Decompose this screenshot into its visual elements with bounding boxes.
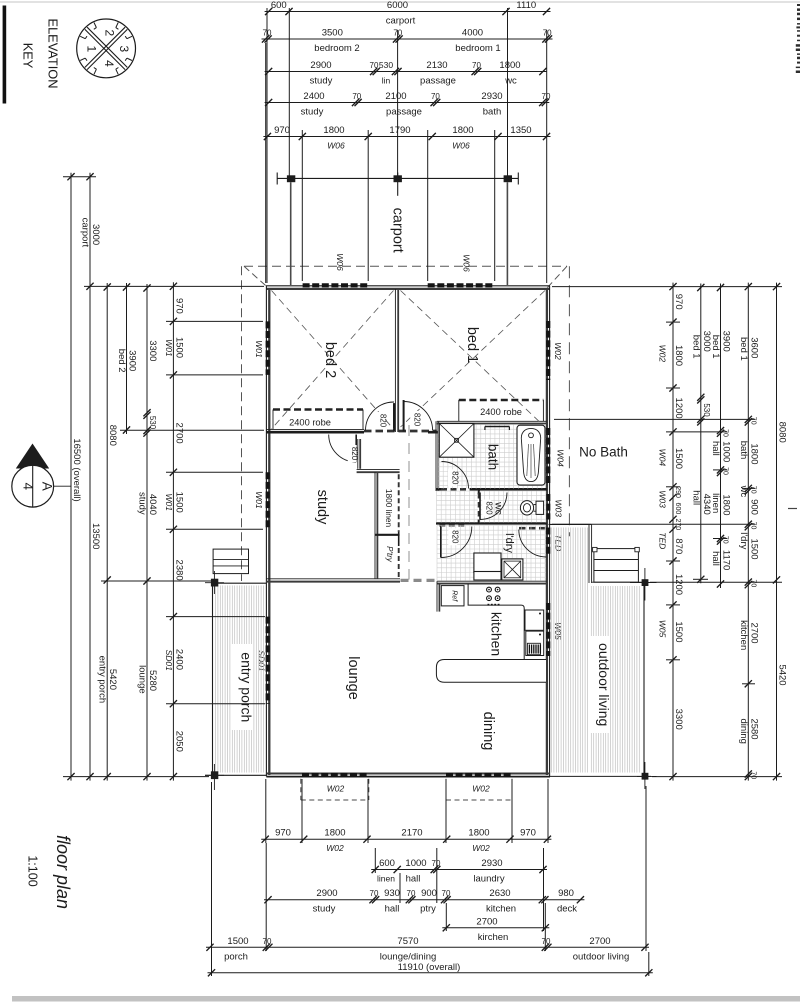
svg-text:2900: 2900 [316,888,337,899]
svg-text:bed 1: bed 1 [738,337,749,361]
svg-text:W06: W06 [462,254,472,272]
svg-text:3300: 3300 [673,709,684,730]
svg-text:W02: W02 [658,345,668,363]
wall bed centre [395,289,398,432]
svg-text:No Bath: No Bath [579,445,628,460]
svg-text:820: 820 [350,447,359,461]
svg-text:3900: 3900 [721,331,732,352]
wall kitchen north [437,581,547,583]
carport label [390,208,406,253]
dim col right J: 3600 bed 1/1800 bath/900 wc/1500 ldry/2700 kitchen/2580 dining [738,283,760,781]
svg-text:70: 70 [370,889,379,898]
svg-text:hall: hall [690,490,701,505]
svg-text:wc: wc [738,485,749,498]
svg-text:2930: 2930 [481,91,502,102]
svg-text:W06: W06 [452,141,470,151]
svg-text:970: 970 [673,294,684,310]
svg-text:laundry: laundry [473,874,504,885]
window W02 right wall [546,321,550,380]
window W04 right wall [546,428,550,483]
svg-text:SD01: SD01 [164,650,174,672]
svg-text:3300: 3300 [147,340,158,361]
svg-text:bath: bath [486,444,501,470]
svg-text:5280: 5280 [147,670,158,691]
svg-text:70: 70 [722,429,729,437]
dim col left B: 3000 carport / 13500 [80,173,102,781]
svg-text:70: 70 [722,467,729,475]
svg-text:1800: 1800 [721,494,732,515]
svg-text:lounge/dining: lounge/dining [380,951,437,962]
svg-text:70: 70 [749,486,756,494]
porch outline [205,583,266,775]
svg-text:W02: W02 [553,342,563,360]
svg-text:1500: 1500 [673,448,684,469]
svg-text:W01: W01 [254,491,264,509]
svg-text:70: 70 [543,29,552,38]
dim row top3: 2900/70/530/70/2130/70/1800 [265,60,547,87]
window W06 right top wall [428,283,495,287]
bed 1 cross diagonals [401,291,546,428]
svg-text:2700: 2700 [476,916,497,927]
label dining [480,712,496,751]
svg-text:290: 290 [674,486,681,498]
svg-text:6000: 6000 [387,0,408,11]
wall linen/ptry divider [375,534,400,536]
deck post top [630,568,657,601]
wall study/lounge [266,579,400,582]
label ldry [503,533,515,553]
wall bath west [436,421,438,491]
wall wc/ldry divider [436,523,547,528]
svg-text:530: 530 [702,403,711,417]
bath door arc [442,462,469,489]
label W01 upper [254,340,264,358]
svg-text:970: 970 [520,828,536,839]
svg-text:W06: W06 [327,141,345,151]
window W03 right wall [546,494,550,520]
W02 tag box left [301,779,369,800]
svg-text:floor plan: floor plan [53,835,73,909]
svg-text:1800: 1800 [323,125,344,136]
svg-text:1200: 1200 [673,574,684,595]
svg-text:70: 70 [352,92,361,101]
door 820 labels [348,411,494,545]
svg-text:70: 70 [407,889,416,898]
svg-text:study: study [137,492,148,515]
svg-text:W01: W01 [164,339,174,357]
svg-text:2900: 2900 [310,60,331,71]
svg-text:bed 1: bed 1 [710,335,721,359]
bathtub [517,425,545,485]
deck hatch [552,528,640,773]
svg-text:1800: 1800 [499,60,520,71]
dim col left D: 3900 bed 2 [116,283,138,434]
dim row bottom2: 600/1000/70/2930 [371,858,547,885]
svg-text:entry porch: entry porch [239,652,255,722]
wc floor tiles [480,491,546,523]
svg-text:2700: 2700 [173,423,184,444]
svg-text:820: 820 [413,413,422,427]
wall kitchen west return [437,581,439,611]
svg-text:dining: dining [480,712,496,751]
kitchen island bench [436,660,546,683]
svg-text:530: 530 [148,416,157,430]
wc door arc [480,493,507,520]
svg-text:bed 1: bed 1 [690,335,701,359]
svg-text:1:100: 1:100 [26,855,40,886]
dim row top4: 2400/70/2100/70/2930/70 [265,91,551,118]
dim row bottom6: 11910 overall [208,962,653,976]
entry porch label [231,644,255,730]
svg-text:carport: carport [390,208,406,253]
label ptry [385,546,394,563]
svg-text:bath: bath [483,107,502,118]
svg-text:1800: 1800 [748,443,759,464]
svg-text:970: 970 [274,125,290,136]
svg-text:70: 70 [472,61,481,70]
svg-text:outdoor living: outdoor living [596,643,612,726]
svg-text:2170: 2170 [401,828,422,839]
svg-text:kirchen: kirchen [478,932,509,943]
svg-text:passage: passage [420,76,456,87]
door TED right wall [546,528,550,556]
svg-text:16500 (overall): 16500 (overall) [71,438,82,501]
svg-text:4040: 4040 [147,494,158,515]
svg-text:Ref: Ref [451,590,458,602]
deck outline [549,524,651,776]
wall bath/wc divider [436,488,547,491]
svg-text:bedroom 2: bedroom 2 [314,43,359,54]
label W01 lower [254,491,264,509]
svg-text:1500: 1500 [173,492,184,513]
svg-text:study: study [301,107,324,118]
dim row bottom3: 2900/70/930/70/900/70/2630/70/980 [264,888,584,915]
svg-text:carport: carport [386,16,416,27]
label W02 right wall [553,342,563,360]
svg-text:kitchen: kitchen [486,904,516,915]
svg-text:study: study [313,904,336,915]
svg-text:1500: 1500 [748,538,759,559]
dim col left C: 8080 / 5420 entry porch [97,283,119,781]
bed 1 door arc [404,402,433,431]
label wc [493,501,505,515]
dim row top5: 970/1800/1790/1800/1350 [263,125,550,151]
title floor plan [53,835,73,909]
carport beam and posts [277,173,518,286]
sheet bottom edge band [12,996,800,1002]
bed door leaves [394,400,404,432]
svg-text:hall: hall [710,551,721,566]
svg-text:1110: 1110 [516,0,536,11]
svg-text:1500: 1500 [673,621,684,642]
svg-text:1790: 1790 [389,125,410,136]
laundry trough [474,553,501,580]
svg-text:1200: 1200 [673,398,684,419]
svg-text:2580: 2580 [748,718,759,739]
svg-text:70: 70 [749,417,756,425]
washing machine [502,559,523,580]
svg-text:13500: 13500 [90,523,101,549]
svg-text:4: 4 [102,60,116,67]
svg-text:A: A [40,482,55,491]
svg-text:70: 70 [749,580,756,588]
porch post bottom [205,764,224,790]
bed 2 door arc [366,402,395,431]
label TED right wall [553,534,563,551]
svg-text:1350: 1350 [510,125,531,136]
label bath [486,444,501,470]
fridge Ref [441,586,464,606]
window W02 bottom wall right [446,773,512,777]
porch post top [205,571,224,594]
svg-text:W04: W04 [556,449,566,467]
svg-text:porch: porch [224,951,248,962]
svg-text:hall: hall [710,441,721,456]
svg-text:1000: 1000 [721,441,732,462]
svg-text:W03: W03 [658,490,668,508]
window W01 lower left wall [266,472,270,529]
svg-text:W01: W01 [164,493,174,511]
svg-text:outdoor living: outdoor living [573,951,630,962]
sheet top edge line [0,1,800,3]
svg-text:70: 70 [442,889,451,898]
svg-text:600: 600 [271,0,287,11]
label bed 1 [464,327,480,363]
svg-text:wc: wc [504,76,517,87]
towel rail [485,427,510,431]
bath floor tiles [439,425,547,489]
svg-text:1800: 1800 [673,345,684,366]
svg-text:2400: 2400 [303,91,324,102]
ELEVATION KEY title [21,19,61,89]
svg-text:3500: 3500 [322,28,343,39]
label W04 right wall [556,449,566,467]
dim col left F: 970/1500 W01/2700/1500 W01/2380/2400 SD01/2050 [164,282,185,780]
robe bed 2 [273,410,363,430]
svg-text:W02: W02 [326,843,344,853]
svg-text:1800: 1800 [452,125,473,136]
svg-text:bed 2: bed 2 [322,342,338,378]
svg-text:11910 (overall): 11910 (overall) [398,962,461,973]
svg-text:820: 820 [450,471,459,485]
deck steps [593,547,640,582]
dim row bottom1: 970/1800/2170/1800/970 [261,828,551,854]
label no bath [579,445,628,460]
svg-text:7570: 7570 [397,936,418,947]
kitchen bench edge [468,584,524,660]
svg-text:8080: 8080 [107,425,118,446]
svg-text:passage: passage [386,107,422,118]
svg-text:W02: W02 [472,843,490,853]
svg-text:2400: 2400 [173,649,184,670]
title scale 1:100 [26,855,40,886]
wall linen west [375,472,377,579]
svg-text:5420: 5420 [777,664,788,685]
svg-text:2050: 2050 [173,731,184,752]
laundry door arc [441,527,472,558]
svg-text:70: 70 [542,937,551,946]
svg-text:3000: 3000 [90,224,101,245]
svg-text:W01: W01 [254,340,264,358]
wall bottom exterior [266,774,550,777]
svg-text:2380: 2380 [173,560,184,581]
svg-text:SD01: SD01 [257,650,267,672]
svg-text:2630: 2630 [489,888,510,899]
W02 tag box right [446,779,512,800]
svg-text:1800: 1800 [468,828,489,839]
svg-text:70: 70 [722,536,729,544]
svg-text:2700: 2700 [589,936,610,947]
elevation marker A4 [12,444,71,508]
svg-text:70: 70 [263,937,272,946]
hall dashed line [401,425,437,580]
svg-text:1: 1 [85,46,99,53]
svg-text:3600: 3600 [748,337,759,358]
svg-text:2700: 2700 [748,622,759,643]
svg-text:TED: TED [658,532,668,549]
deck post bottom [637,762,657,789]
wall wc west [478,491,480,523]
svg-text:530: 530 [379,60,393,70]
label bed 2 [322,342,338,378]
svg-text:bath: bath [738,441,749,460]
svg-text:lounge: lounge [345,656,361,700]
svg-text:3: 3 [117,46,131,53]
label W05 right wall [553,622,563,640]
svg-text:70: 70 [749,771,756,779]
dim col right K: 8080 / 5420 [773,283,788,781]
svg-text:study: study [314,490,330,525]
oven tower [525,610,544,656]
svg-text:dining: dining [738,719,749,744]
svg-text:W02: W02 [472,784,490,794]
svg-text:P'try: P'try [385,546,394,563]
svg-text:2930: 2930 [481,858,502,869]
dim col left A: 16500 overall [67,173,82,781]
linen door dashed east [398,474,400,546]
window W02 bottom wall left [302,773,368,777]
svg-text:930: 930 [384,888,400,899]
svg-text:lounge: lounge [137,665,148,694]
label kitchen [489,612,505,656]
label SD01 porch [257,650,267,672]
label W03 right wall [553,499,563,517]
svg-text:1800: 1800 [324,828,345,839]
svg-text:1000: 1000 [405,858,426,869]
sheet left border bar segment [3,6,7,104]
label linen [384,489,394,528]
dim row top1: 600/6000/1110 [265,0,551,27]
svg-text:kitchen: kitchen [738,620,749,650]
svg-text:1500: 1500 [227,936,248,947]
svg-text:970: 970 [173,298,184,314]
right edge clipped title text [796,4,800,73]
svg-text:820: 820 [451,530,460,544]
svg-text:1500: 1500 [173,337,184,358]
laundry floor tiles [437,526,546,581]
svg-text:W04: W04 [658,449,668,467]
svg-text:2400 robe: 2400 robe [289,418,331,428]
wall right exterior [547,286,550,777]
svg-text:70: 70 [370,61,379,70]
svg-text:l'dry: l'dry [738,532,749,549]
svg-text:70: 70 [749,522,756,530]
svg-text:970: 970 [275,828,291,839]
svg-text:900: 900 [421,888,437,899]
svg-text:820: 820 [485,501,494,515]
svg-text:deck: deck [557,904,577,915]
label study [314,490,330,525]
hall nook tiles [437,491,479,523]
right edge fold mark [788,508,797,510]
svg-text:hall: hall [406,874,421,885]
svg-text:W05: W05 [553,622,563,640]
svg-text:KEY: KEY [21,43,36,69]
svg-text:2100: 2100 [385,91,406,102]
wall left exterior [266,286,269,777]
svg-text:4000: 4000 [462,28,483,39]
svg-text:1800 linen: 1800 linen [384,489,394,528]
svg-text:linen: linen [377,874,395,884]
wall bath north [437,421,547,423]
svg-text:70: 70 [431,92,440,101]
svg-text:W06: W06 [335,253,345,271]
cooktop [487,587,500,605]
svg-text:600: 600 [379,858,395,869]
svg-text:600: 600 [674,503,681,515]
svg-text:900: 900 [748,499,759,515]
svg-text:2400 robe: 2400 robe [480,407,522,417]
bed 2 cross diagonals [272,291,394,430]
elevation key symbol [77,19,136,78]
window W01 upper left wall [266,321,270,375]
porch steps [213,549,248,574]
svg-text:870: 870 [673,538,684,554]
label lounge [345,656,361,700]
svg-text:bed 2: bed 2 [116,349,127,373]
svg-text:980: 980 [558,888,574,899]
window W05 right wall [546,603,550,656]
shower [439,424,474,458]
toilet [520,501,543,515]
svg-text:ELEVATION: ELEVATION [46,19,61,89]
svg-text:ptry: ptry [420,904,436,915]
porch deck hatch [216,586,264,773]
dim row top2: 70/3500/70/4000/70 [262,28,553,55]
window W06 left top wall [303,283,370,287]
sliding door SD01 left wall [266,617,270,704]
svg-text:study: study [310,76,333,87]
svg-text:70: 70 [432,859,441,868]
svg-text:4: 4 [21,482,36,490]
dim col right I: 3900 bed 1/70/1000 hall/70/1800 linen/70/1170 hall [710,284,732,589]
wall beds south [266,429,440,432]
svg-text:entry porch: entry porch [97,656,108,704]
svg-text:bedroom 1: bedroom 1 [455,43,500,54]
svg-text:8080: 8080 [777,422,788,443]
wall linen north [357,470,400,473]
roof outline dashed [242,266,570,581]
svg-text:W03: W03 [553,499,563,517]
outdoor living label [589,636,612,733]
svg-text:2: 2 [102,30,116,37]
robe bed 1 [459,400,544,421]
svg-text:l'dry: l'dry [503,533,515,553]
W06 roof labels [335,253,472,272]
wall study east [358,439,360,469]
svg-text:W02: W02 [327,784,345,794]
svg-text:bed 1: bed 1 [464,327,480,363]
